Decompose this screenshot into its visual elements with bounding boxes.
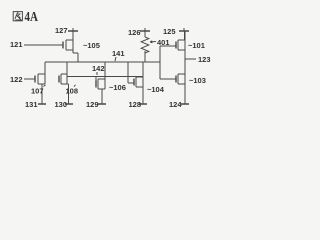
svg-text:401: 401 — [157, 38, 170, 47]
svg-text:124: 124 — [169, 100, 182, 109]
svg-text:~103: ~103 — [189, 76, 206, 85]
svg-text:107: 107 — [31, 87, 44, 96]
svg-text:128: 128 — [129, 100, 142, 109]
svg-text:131: 131 — [25, 100, 38, 109]
svg-text:141: 141 — [112, 49, 125, 58]
svg-text:121: 121 — [10, 40, 23, 49]
svg-text:~105: ~105 — [83, 41, 100, 50]
svg-text:125: 125 — [163, 27, 176, 36]
svg-text:108: 108 — [66, 87, 79, 96]
svg-text:126: 126 — [128, 28, 141, 37]
svg-text:~106: ~106 — [109, 83, 126, 92]
svg-text:122: 122 — [10, 75, 23, 84]
svg-text:142: 142 — [92, 64, 105, 73]
svg-text:4A: 4A — [25, 10, 39, 25]
svg-text:~101: ~101 — [188, 41, 205, 50]
svg-text:123: 123 — [198, 55, 211, 64]
svg-text:129: 129 — [86, 100, 99, 109]
svg-text:130: 130 — [55, 100, 68, 109]
svg-text:127: 127 — [55, 26, 68, 35]
svg-text:~104: ~104 — [147, 85, 165, 94]
